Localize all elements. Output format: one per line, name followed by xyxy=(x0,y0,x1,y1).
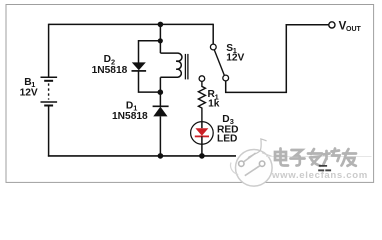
wire coil bottom to node xyxy=(159,77,161,92)
char zi xyxy=(291,150,305,166)
LED D3 xyxy=(191,122,214,145)
svg-text:D: D xyxy=(104,54,111,65)
wire battery top lead xyxy=(48,24,50,77)
watermark logo link dots xyxy=(239,153,265,176)
wire switch output to VOUT riser xyxy=(226,24,287,92)
wire main vertical from top rail xyxy=(159,24,161,53)
label D1 xyxy=(112,100,148,122)
char shao xyxy=(323,149,340,166)
svg-text:1N5818: 1N5818 xyxy=(92,65,128,76)
svg-text:1k: 1k xyxy=(208,99,220,110)
wire node to D1 xyxy=(159,92,161,106)
diode D1 xyxy=(153,106,169,116)
label VOUT xyxy=(339,20,362,33)
watermark chinese title (stylized strokes) xyxy=(275,149,356,166)
svg-text:LED: LED xyxy=(217,134,237,145)
node junction bottom rail left xyxy=(158,153,164,159)
watermark dark mark xyxy=(318,165,331,171)
svg-text:12V: 12V xyxy=(20,87,38,98)
terminal VOUT xyxy=(329,22,335,28)
wire top rail xyxy=(49,23,214,25)
wire D2 branch top xyxy=(139,41,161,63)
wire D2 branch bottom xyxy=(139,71,161,92)
label D3 RED LED xyxy=(217,114,239,145)
svg-text:1N5818: 1N5818 xyxy=(112,111,148,122)
svg-text:OUT: OUT xyxy=(346,26,362,33)
node junction coil/D2 bottom xyxy=(158,89,164,95)
svg-text:D: D xyxy=(222,114,229,125)
char you xyxy=(342,149,357,166)
char fa xyxy=(308,149,322,166)
wire VOUT lead xyxy=(286,24,329,26)
border frame xyxy=(6,5,374,183)
svg-text:www.elecfans.com: www.elecfans.com xyxy=(271,170,368,181)
watermark logo circle xyxy=(230,139,371,186)
node junction D2 top xyxy=(158,38,163,43)
label B1 xyxy=(20,77,38,99)
wire D1 to bottom rail xyxy=(159,116,161,155)
node junction top rail xyxy=(158,22,164,28)
wire bottom rail xyxy=(48,155,236,157)
node junction bottom rail right xyxy=(199,153,205,159)
svg-text:D: D xyxy=(126,100,133,111)
resistor R1 xyxy=(198,81,205,121)
label S1 xyxy=(226,43,244,64)
switch S1 xyxy=(210,44,228,81)
diode D2 xyxy=(132,62,147,71)
wire LED to bottom rail xyxy=(201,144,203,156)
terminal R1 top xyxy=(199,76,205,82)
label R1 xyxy=(208,89,220,109)
wire battery bottom lead xyxy=(48,106,50,157)
char dian xyxy=(275,149,288,166)
battery B1 xyxy=(41,77,58,105)
svg-text:12V: 12V xyxy=(226,53,244,64)
label D2 xyxy=(92,54,128,76)
relay coil xyxy=(160,53,188,79)
wire switch feed xyxy=(212,24,214,44)
